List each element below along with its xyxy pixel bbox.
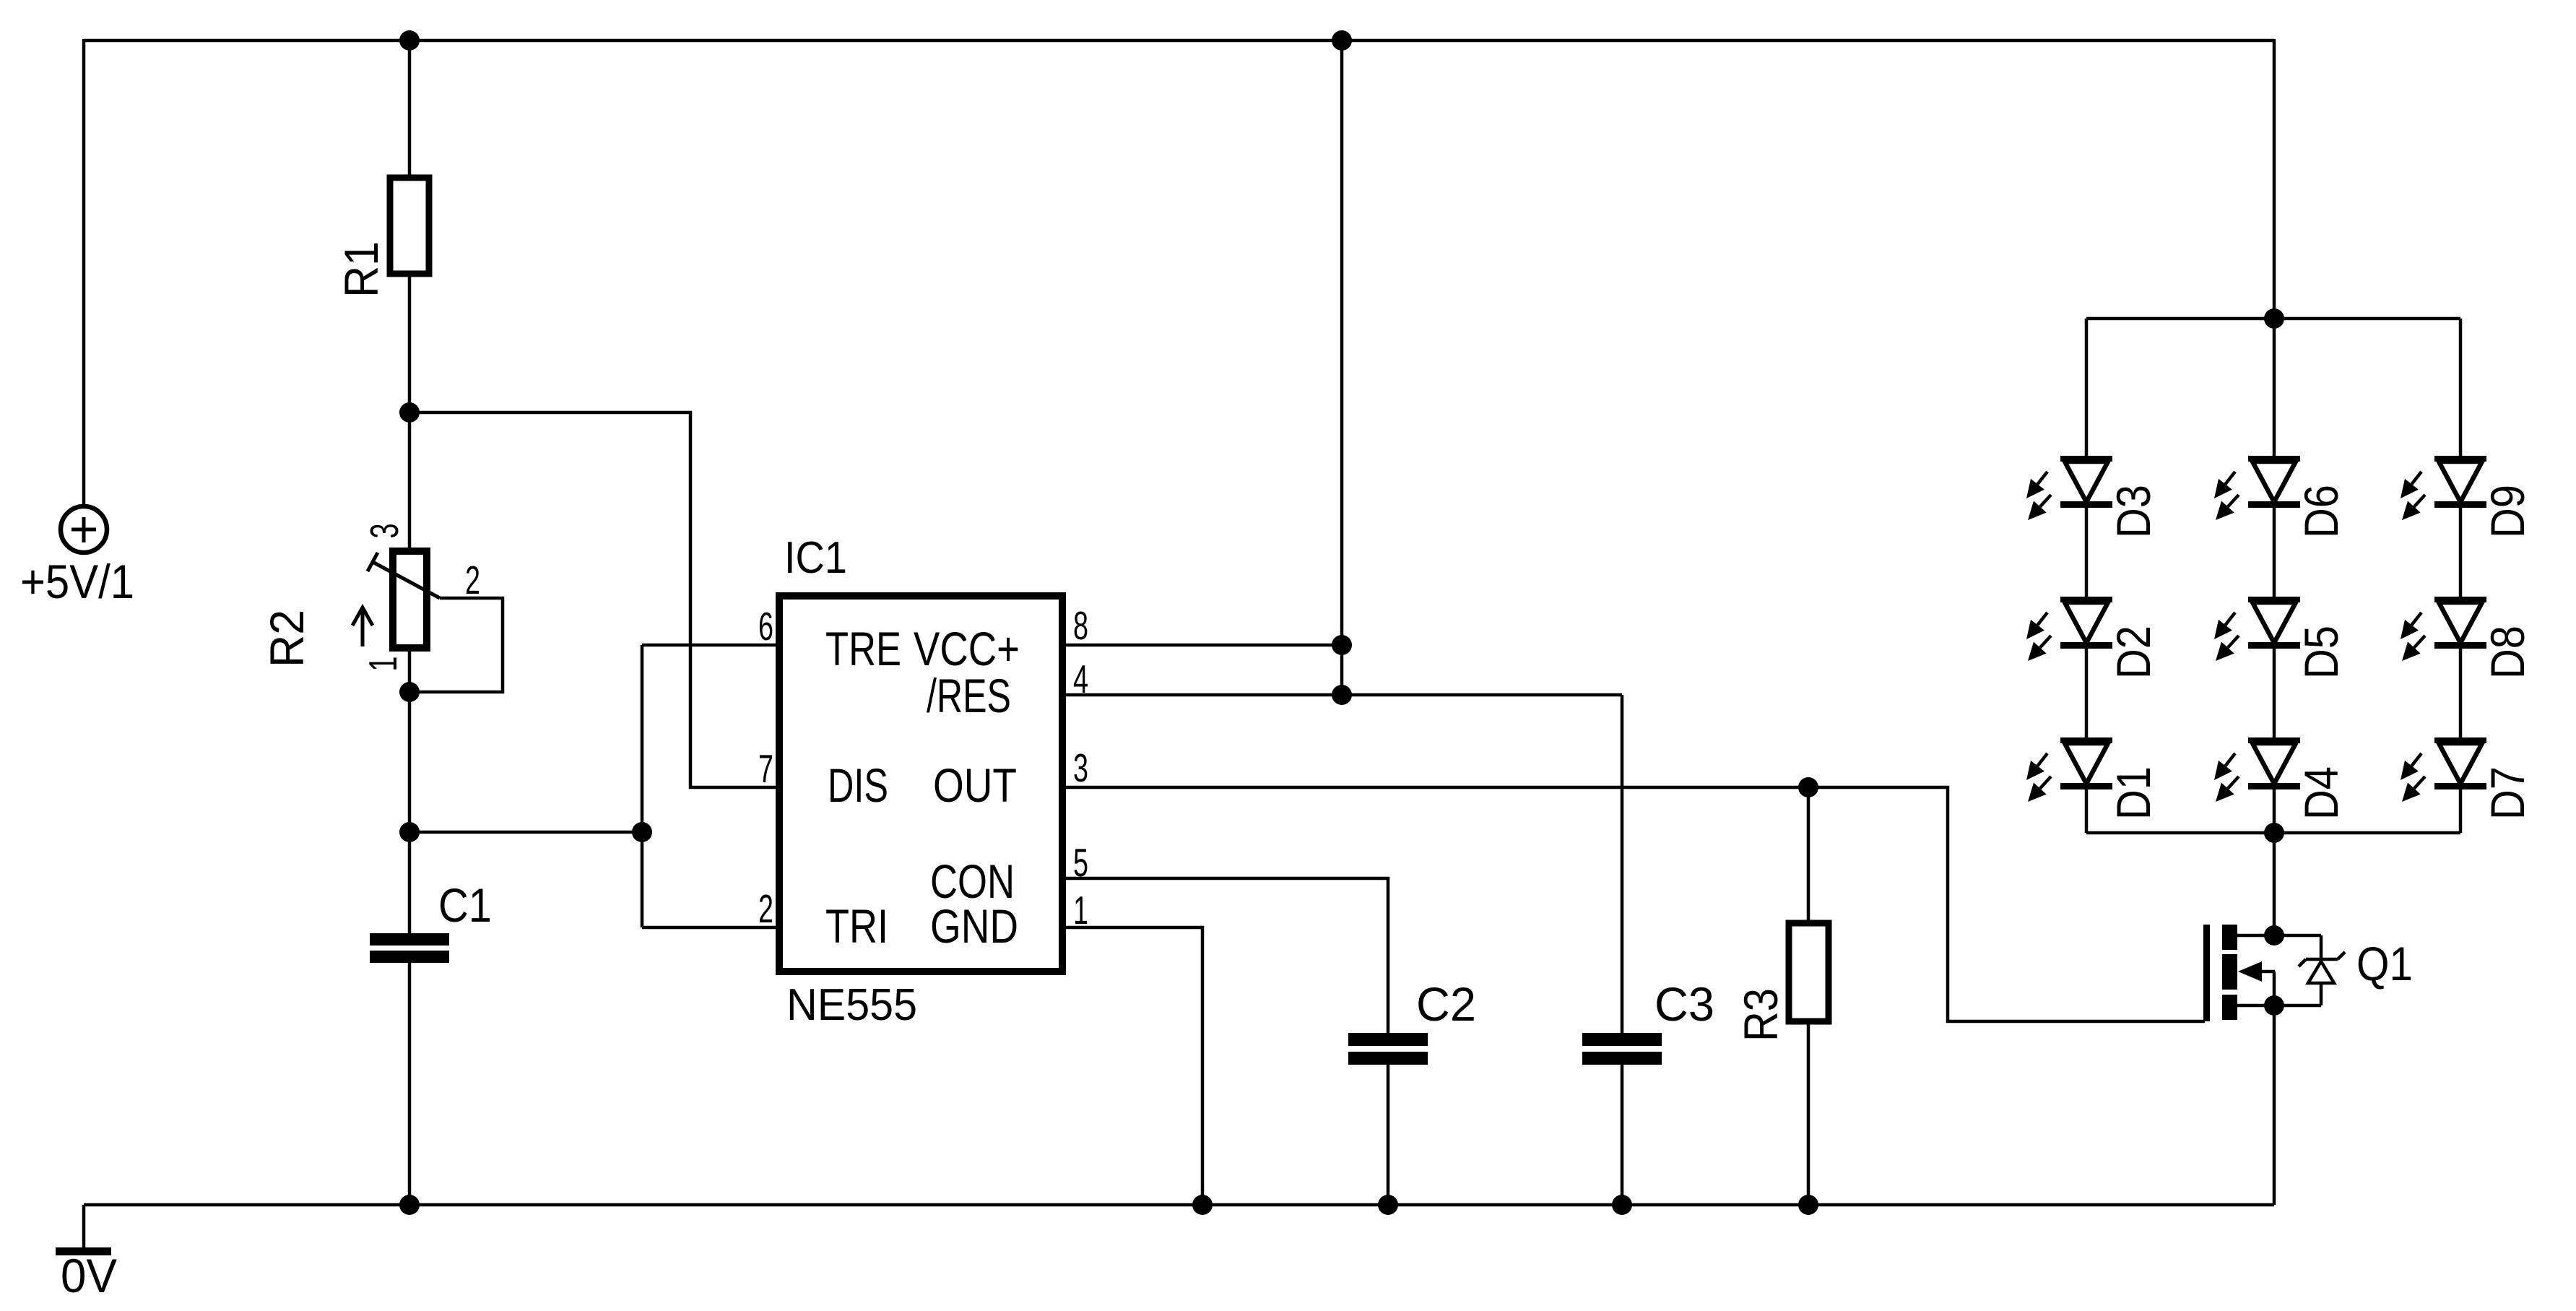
wire: LED array top rail — [2086, 317, 2460, 321]
wire: VCC+ (pin 8) to supply vertical — [1062, 644, 1342, 647]
svg-text:0V: 0V — [61, 1249, 117, 1302]
svg-text:D5: D5 — [2294, 626, 2348, 679]
wire: junction to DIS (pin 7) — [409, 412, 779, 787]
wire: LED bottom rail to Q1 drain — [2273, 833, 2276, 937]
capacitor C3 top plate — [1582, 1033, 1662, 1046]
svg-text:1: 1 — [1073, 888, 1088, 933]
wire: Q1 source — [2237, 1004, 2321, 1008]
svg-text:8: 8 — [1073, 603, 1088, 648]
resistor R3 — [1789, 923, 1829, 1021]
svg-text:GND: GND — [930, 899, 1018, 953]
svg-text:D8: D8 — [2481, 626, 2534, 679]
wire: Q1 drain — [2237, 934, 2321, 938]
wire: LED column 1 — [2085, 319, 2089, 833]
wire: R2 wiper to pin1 junction — [409, 598, 503, 692]
svg-text:IC1: IC1 — [784, 533, 847, 583]
svg-text:D7: D7 — [2481, 766, 2534, 820]
capacitor C2 top plate — [1348, 1033, 1428, 1046]
svg-text:VCC+: VCC+ — [914, 622, 1020, 675]
junction dot Q1 drain — [2264, 925, 2284, 946]
capacitor C1 bottom plate — [370, 951, 449, 963]
capacitor C1 top plate — [370, 933, 449, 946]
svg-text:3: 3 — [1073, 745, 1088, 790]
svg-text:7: 7 — [758, 746, 773, 791]
wire: C3 to 0V rail — [1621, 1065, 1624, 1205]
junction node R2/C1/TRE-TRI — [399, 822, 420, 842]
R2 wiper slash — [373, 562, 440, 598]
svg-text:R1: R1 — [334, 241, 388, 298]
wire: R2 bottom to C1 — [408, 648, 412, 935]
svg-text:D3: D3 — [2107, 485, 2160, 538]
wire: Q1 source to 0V rail — [2273, 1005, 2276, 1205]
wire: OUT to R3 — [1807, 787, 1810, 925]
svg-text:NE555: NE555 — [786, 980, 917, 1030]
svg-text:2: 2 — [758, 886, 773, 931]
LED D5 — [2214, 597, 2300, 661]
junction dot pin 4 — [1332, 685, 1352, 705]
LED D7 — [2401, 737, 2486, 802]
Q1 body diode — [2320, 935, 2323, 960]
junction dot TRE/TRI vertical — [632, 822, 652, 842]
wire: junction to TRE/TRI vertical — [409, 831, 642, 834]
wire: to TRI (pin 2) — [642, 926, 779, 930]
Q1 bulk arrow — [2261, 970, 2275, 974]
svg-text:2: 2 — [465, 558, 480, 602]
junction dot pin1/0V rail — [1192, 1195, 1213, 1215]
capacitor C3 bottom plate — [1582, 1052, 1662, 1065]
svg-text:OUT: OUT — [933, 758, 1017, 812]
LED D9 — [2401, 456, 2486, 520]
LED D3 — [2026, 456, 2112, 520]
junction dot R2 wiper/bottom — [399, 682, 420, 702]
wire: left drop to supply symbol — [82, 39, 86, 506]
junction dot LED top rail — [2264, 308, 2284, 329]
svg-text:1: 1 — [360, 657, 405, 672]
transistor Q1 channel bottom segment — [2222, 995, 2237, 1020]
potentiometer R2 body — [393, 551, 427, 648]
R2 wiper crossbar — [368, 553, 378, 571]
svg-text:D6: D6 — [2294, 485, 2348, 538]
ground bar symbol — [56, 1247, 111, 1255]
svg-text:C2: C2 — [1416, 977, 1476, 1031]
wire: top rail to R1 — [408, 40, 412, 179]
svg-text:+5V/1: +5V/1 — [20, 555, 134, 608]
svg-text:R3: R3 — [1734, 988, 1787, 1042]
svg-text:/RES: /RES — [927, 669, 1011, 722]
wire: R3 to 0V rail — [1807, 1021, 1810, 1205]
wire: 0V bottom rail — [84, 1203, 2274, 1207]
svg-text:DIS: DIS — [828, 758, 888, 812]
junction dot C1/0V rail — [399, 1195, 420, 1215]
junction dot C2/0V rail — [1378, 1195, 1398, 1215]
wire: TRE/TRI vertical — [641, 645, 644, 927]
svg-text:D1: D1 — [2107, 766, 2160, 820]
svg-text:D4: D4 — [2294, 766, 2348, 820]
svg-text:TRI: TRI — [825, 899, 888, 953]
svg-text:D2: D2 — [2107, 626, 2160, 679]
LED D8 — [2401, 597, 2486, 661]
svg-text:R2: R2 — [260, 610, 313, 667]
svg-text:TRE: TRE — [825, 622, 901, 675]
resistor R1 — [390, 178, 429, 274]
supply plus sign — [71, 528, 96, 532]
junction dot top rail / VCC vertical — [1332, 30, 1352, 51]
wire: /RES (pin 4) to C3 column — [1062, 693, 1622, 697]
LED D4 — [2214, 737, 2300, 802]
junction node R1/R2/DIS — [399, 402, 420, 423]
wire: LED column 2 — [2273, 319, 2276, 833]
junction dot R3/0V rail — [1798, 1195, 1818, 1215]
wire: GND (pin 1) to 0V rail — [1062, 927, 1202, 1205]
junction dot pin 8 — [1332, 635, 1352, 655]
wire: +5V top rail — [84, 39, 2274, 43]
wire: OUT (pin 3) to gate of Q1 — [1062, 787, 2205, 1021]
transistor Q1 channel middle segment — [2222, 954, 2237, 990]
svg-text:C3: C3 — [1655, 977, 1714, 1031]
svg-text:3: 3 — [362, 524, 407, 539]
supply +5V circle symbol — [61, 506, 107, 553]
wire: LED column 3 — [2459, 319, 2463, 833]
wire: ground stub — [82, 1205, 86, 1248]
wire: CON (pin 5) to C2 — [1062, 878, 1388, 1034]
junction dot top rail / R1 column — [399, 30, 420, 51]
LED D2 — [2026, 597, 2112, 661]
wire: C2 to 0V rail — [1387, 1065, 1390, 1205]
svg-text:C1: C1 — [438, 878, 492, 932]
wire: to TRE (pin 6) — [642, 644, 779, 647]
transistor Q1 gate bar — [2203, 925, 2210, 1021]
LED D6 — [2214, 456, 2300, 520]
LED D1 — [2026, 737, 2112, 802]
R2 adjust arrow — [361, 610, 365, 646]
wire: C1 to 0V rail — [408, 963, 412, 1205]
wire: top rail right drop to LED array — [2273, 39, 2276, 319]
wire: VCC vertical from top rail — [1340, 40, 1344, 695]
junction dot LED bottom rail — [2264, 823, 2284, 843]
wire: /RES column down to C3 — [1621, 695, 1624, 1034]
wire: LED array bottom rail — [2086, 831, 2460, 835]
svg-text:D9: D9 — [2481, 485, 2534, 538]
junction dot Q1 source — [2264, 995, 2284, 1016]
capacitor C2 bottom plate — [1348, 1052, 1428, 1065]
wire: R1 to R2 junction — [408, 274, 412, 551]
junction dot C3/0V rail — [1612, 1195, 1632, 1215]
svg-text:Q1: Q1 — [2356, 937, 2413, 990]
junction dot OUT / R3 — [1798, 777, 1818, 797]
op-amp/timer IC1 box — [779, 596, 1062, 972]
transistor Q1 channel top segment — [2222, 925, 2237, 950]
svg-text:6: 6 — [758, 604, 773, 649]
